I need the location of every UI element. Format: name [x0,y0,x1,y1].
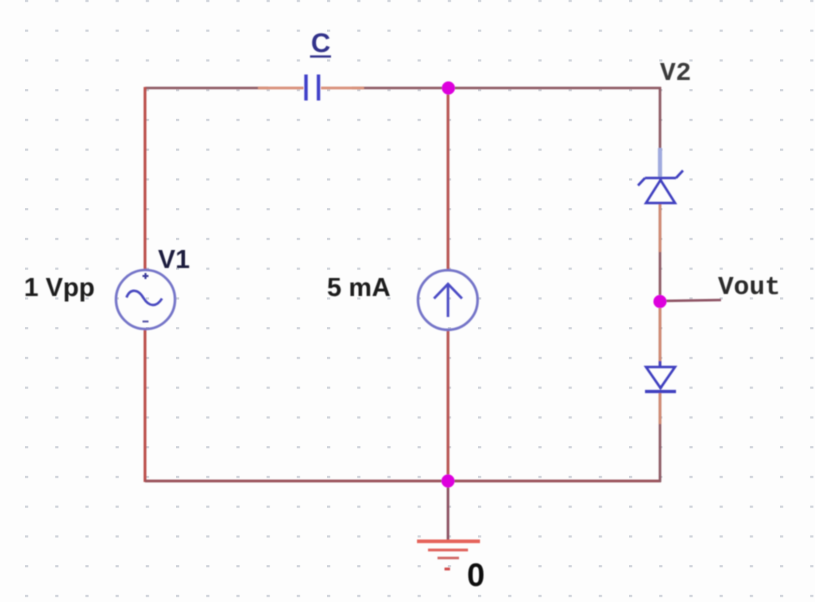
label 1 Vpp [24,272,95,302]
wire top-right horizontal [448,87,661,90]
wire bottom-right horizontal [448,480,661,483]
svg-text:V1: V1 [158,244,190,274]
net label V2 [660,58,691,88]
wire ground stub [447,481,450,540]
label 5 mA [327,272,391,302]
wire right vertical middle [659,203,662,367]
junction bottom node [441,474,454,487]
wire right vertical upper (net V2) [659,87,662,178]
current source I1 [418,270,478,330]
wire right vertical lower [659,390,662,482]
wire bottom-left horizontal [145,480,448,483]
zener diode D2 [638,148,683,363]
wire top-left horizontal [145,87,448,90]
voltage source V1 [116,270,175,329]
svg-text:Vout: Vout [718,272,780,302]
diode D1 [645,361,676,424]
wire center vertical lower [447,329,450,482]
junction top node [442,81,455,94]
wire Vout stub [660,300,721,301]
svg-text:C: C [311,28,331,58]
svg-text:0: 0 [467,557,485,593]
label 0 [467,557,485,593]
ground 0 [417,541,480,569]
junction Vout node [653,295,666,308]
svg-text:5 mA: 5 mA [327,272,391,302]
capacitor C [258,75,364,101]
wire left vertical lower [144,329,147,482]
label C [310,28,331,58]
svg-text:V2: V2 [660,58,691,88]
net label Vout [718,272,780,302]
wire left vertical upper [144,87,147,271]
label V1 [158,244,190,274]
svg-text:1 Vpp: 1 Vpp [24,272,95,302]
wire center vertical upper [447,88,450,271]
